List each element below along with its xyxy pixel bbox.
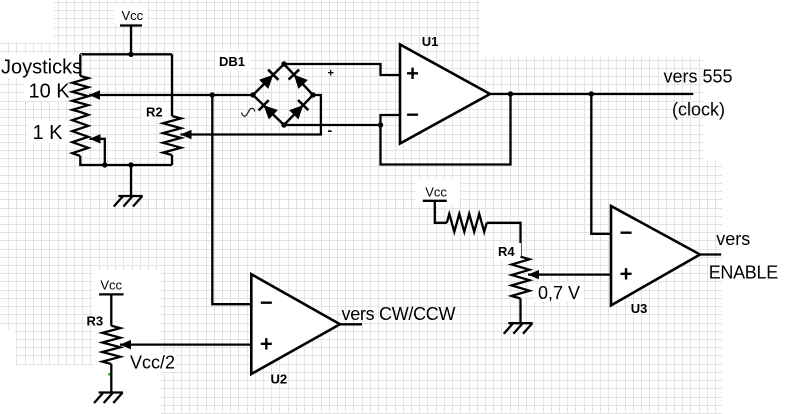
wire R2 wiper to bridge right vertex [181,95,321,135]
op-amp U2 [251,274,340,374]
wire vertical bus down to U2 inverting input [212,95,251,304]
junction U3 tap [589,91,594,96]
diode bridge DB1 outline [253,64,313,125]
svg-text:1 K: 1 K [33,122,64,144]
svg-text:U2: U2 [271,372,288,387]
svg-text:−: − [260,290,273,315]
ground (R4) [504,323,533,334]
svg-text:+: + [406,61,419,86]
svg-text:ENABLE: ENABLE [709,263,779,283]
wiper arrow of R2 [181,130,192,139]
potentiometer 1 K [28,112,88,156]
wire inverting node stub into U1 [381,115,401,125]
wiper arrow of 1K [90,134,101,144]
svg-text:DB1: DB1 [219,54,245,69]
svg-text:R3: R3 [87,314,104,329]
wire feedback loop U1 output to inverting node [381,94,511,165]
white patch behind R4 Vcc area [415,178,460,206]
wire U1 output clock line [490,93,693,95]
svg-text:(clock): (clock) [672,100,725,120]
wire clock line down to U3 inverting input [591,94,611,234]
white patch behind R3 area [93,270,161,414]
svg-text:−: − [406,102,419,127]
wire Vcc to R3 top [110,294,112,325]
power symbol Vcc (R4 supply) [419,181,451,201]
wire 1K wiper shorted down to bottom rail [90,139,105,165]
junction bottom rail/ground [128,162,133,167]
wire 1K bottom to bottom rail [80,156,172,165]
white patch top-right [481,0,792,57]
power symbol Vcc (R3 supply) [94,274,126,294]
ground (joystick divider) [114,196,143,207]
wire series resistor to R4 top [487,223,521,257]
resistor (series with R4) [447,214,487,232]
svg-text:+: + [620,262,633,287]
svg-text:+: + [260,332,273,357]
svg-text:+: + [328,68,334,80]
AC sine symbol at bridge input [242,108,255,116]
power symbol Vcc (joystick supply) [114,4,147,26]
svg-text:Vcc/2: Vcc/2 [130,353,175,373]
junction bridge top vertex [281,61,286,66]
diode D2 (right to top) [289,70,308,89]
wire R4 wiper to U3 noninverting input [528,273,611,275]
wiper arrow of 10K [89,90,100,100]
wire U3 output [700,253,721,255]
wiper arrow of R4 [528,270,539,280]
diode D4 (bottom to right) [289,100,308,119]
wire R4 bottom to ground [519,299,521,324]
svg-text:R2: R2 [146,105,163,120]
op-amp U1 [400,45,490,144]
node label 0,7 V [534,283,584,303]
wire 10K wiper to bridge left node [89,94,253,96]
junction 1K wiper/bottom rail [102,162,107,167]
ground (R3) [94,393,123,404]
white patch bottom-left corner [0,366,93,414]
svg-text:vers 555: vers 555 [664,67,733,87]
svg-text:R4: R4 [498,244,515,259]
stray green pixel artifact [108,373,111,376]
wire top rail down to R2 [171,54,173,116]
potentiometer R4 [494,243,530,299]
white patch right edge lower [722,160,792,414]
junction inverting node [378,122,383,127]
wire top rail [80,53,172,55]
svg-text:0,7 V: 0,7 V [538,283,580,303]
wiper arrow of R3 [120,340,131,350]
white patch right edge upper [703,45,792,160]
svg-text:vers: vers [716,229,750,249]
wire bridge - output to U1 inverting node [284,124,381,126]
wire bottom rail to ground [130,165,132,196]
wire R3 wiper to U2 noninverting input [120,343,251,345]
wire Vcc to top rail [130,26,132,55]
op-amp U3 [611,206,700,305]
svg-text:U3: U3 [631,301,648,316]
svg-text:Joysticks: Joysticks [1,57,82,79]
wire Vcc down and right to series resistor [435,201,447,223]
wire top rail to 10K pot [79,54,81,76]
wire R2 bottom to bottom rail [171,155,173,165]
node label Vcc/2 [128,352,176,373]
svg-text:−: − [620,220,633,245]
svg-text:Vcc: Vcc [100,277,122,292]
junction wiper/vertical bus [210,92,215,97]
node label Joysticks [0,54,82,79]
diode D1 (left to top) [259,70,278,89]
white patch left edge lower [0,330,15,414]
diode D3 (bottom to left) [259,100,278,119]
potentiometer R2 [142,103,181,155]
junction feedback tap [508,91,513,96]
label DB1 [215,52,251,71]
junction Vcc/top-rail [128,52,133,57]
svg-text:vers CW/CCW: vers CW/CCW [342,304,456,324]
wire U2 output [340,323,362,325]
wire R3 bottom to ground [110,364,112,393]
svg-text:10 K: 10 K [29,81,71,103]
junction bridge left vertex [250,92,255,97]
junction bridge right vertex [310,92,315,97]
svg-text:Vcc: Vcc [425,185,447,200]
wire bridge + output to U1 noninverting input [284,64,400,75]
white patch top-left corner [0,0,54,42]
svg-text:U1: U1 [422,34,439,49]
potentiometer R3 [87,314,121,365]
potentiometer 10 K [24,76,88,112]
junction bridge bottom vertex [281,122,286,127]
svg-text:Vcc: Vcc [122,8,144,23]
